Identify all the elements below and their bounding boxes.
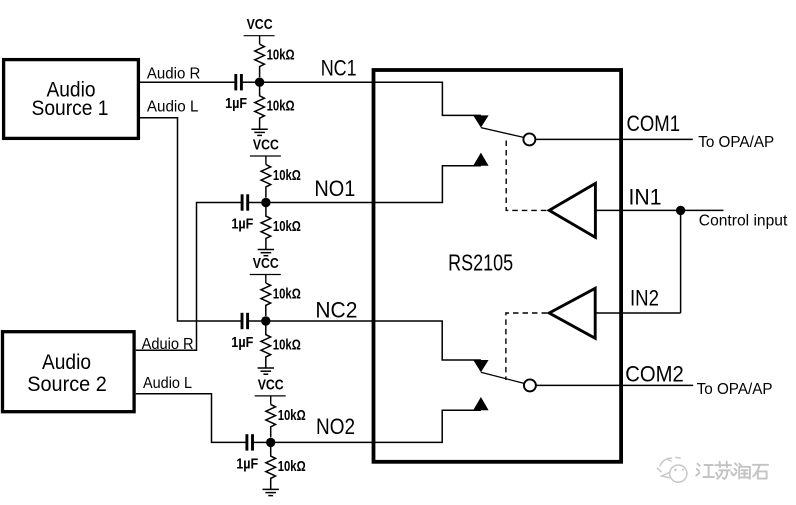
svg-text:Control input: Control input	[699, 213, 788, 230]
node junction dot net 2	[261, 198, 270, 207]
resistor R7 10k pull-up	[266, 404, 306, 437]
watermark text Jiangsu Runshi (drawn strokes)	[696, 462, 768, 479]
wire COM2 output	[536, 384, 693, 386]
svg-text:Audio R: Audio R	[147, 66, 201, 83]
switch SW1 common pole circle	[523, 133, 535, 145]
svg-text:VCC: VCC	[253, 138, 279, 154]
ground GND1	[251, 129, 267, 135]
wire Audio R source1 to C1	[140, 81, 235, 83]
svg-text:Audio L: Audio L	[143, 375, 192, 392]
svg-text:VCC: VCC	[253, 256, 279, 272]
wire NC1 net into U1	[260, 82, 481, 115]
wire Aduio R source2 to C2 (NO1)	[136, 203, 242, 351]
wire control input to IN2	[680, 210, 682, 313]
resistor R5 10k pull-up	[261, 283, 301, 316]
svg-text:10kΩ: 10kΩ	[267, 48, 295, 64]
wire IN2	[595, 312, 680, 314]
svg-text:10kΩ: 10kΩ	[273, 219, 301, 235]
resistor R3 10k pull-up	[261, 165, 301, 198]
svg-text:Audio: Audio	[42, 351, 91, 374]
wire IN1	[595, 209, 723, 211]
svg-text:IN1: IN1	[629, 185, 662, 210]
node junction dot net 3	[261, 316, 270, 325]
wire Audio L source2 to C4 (NO2)	[136, 394, 246, 443]
resistor R4 10k pull-down	[261, 207, 301, 250]
watermark logo	[657, 458, 687, 483]
svg-text:To OPA/AP: To OPA/AP	[697, 381, 773, 398]
switch SW2 common pole circle	[524, 379, 536, 391]
capacitor C3 1uF coupling	[231, 313, 261, 351]
switch SW1 NO contact (up triangle)	[473, 153, 488, 166]
ground GND3	[258, 368, 274, 374]
inverter buffer A2	[549, 288, 595, 338]
svg-text:NC2: NC2	[315, 298, 357, 323]
wire NC2 net into U1	[266, 321, 481, 360]
svg-text:NO2: NO2	[316, 414, 355, 439]
dashed control link SW1	[506, 141, 547, 211]
svg-text:To OPA/AP: To OPA/AP	[698, 134, 774, 151]
svg-text:10kΩ: 10kΩ	[273, 287, 301, 303]
capacitor C4 1uF coupling	[236, 434, 267, 472]
dashed control link SW2	[506, 313, 547, 380]
VCC3 VCC supply symbol	[250, 256, 281, 283]
capacitor C2 1uF coupling	[231, 194, 262, 232]
svg-text:10kΩ: 10kΩ	[278, 408, 306, 424]
wire Audio L source1 to C3 (NC2)	[140, 118, 241, 321]
Audio Source 1 box	[4, 60, 139, 139]
svg-text:1µF: 1µF	[231, 217, 253, 233]
resistor R8 10k pull-down	[266, 446, 306, 489]
svg-text:NO1: NO1	[314, 176, 355, 201]
switch SW2 NO contact (up triangle)	[473, 397, 488, 410]
resistor R2 10k pull-down	[255, 86, 295, 129]
svg-text:10kΩ: 10kΩ	[278, 459, 306, 475]
node junction dot net 1	[255, 78, 264, 87]
Audio Source 2 box	[3, 332, 135, 412]
svg-text:Audio L: Audio L	[147, 98, 199, 115]
ground GND2	[258, 250, 274, 256]
svg-text:NC1: NC1	[321, 56, 357, 81]
switch SW2 NC contact (down triangle)	[473, 360, 488, 372]
svg-text:Aduio R: Aduio R	[142, 336, 194, 353]
op-amp U1 RS2105 IC body	[374, 70, 622, 462]
wire NO2 net into U1	[271, 410, 481, 442]
wire COM1 output	[535, 138, 692, 140]
svg-text:10kΩ: 10kΩ	[273, 338, 301, 354]
svg-text:VCC: VCC	[247, 17, 273, 33]
svg-text:Source 1: Source 1	[32, 97, 109, 120]
node control input junction	[676, 206, 685, 215]
svg-text:1µF: 1µF	[236, 456, 258, 472]
svg-text:1µF: 1µF	[231, 335, 253, 351]
VCC1 VCC supply symbol	[244, 17, 275, 44]
switch SW1 lever	[481, 128, 524, 138]
VCC4 VCC supply symbol	[255, 377, 286, 404]
ground GND4	[263, 489, 279, 495]
svg-text:RS2105: RS2105	[448, 250, 513, 276]
resistor R1 10k pull-up	[255, 44, 295, 77]
VCC2 VCC supply symbol	[250, 138, 281, 165]
switch SW2 lever	[481, 372, 524, 383]
svg-text:VCC: VCC	[258, 377, 284, 393]
svg-text:Source 2: Source 2	[27, 373, 107, 396]
switch SW1 NC contact (down triangle)	[473, 115, 488, 127]
inverter buffer A1	[549, 183, 595, 237]
svg-text:COM2: COM2	[625, 361, 684, 386]
node junction dot net 4	[266, 438, 275, 447]
svg-text:1µF: 1µF	[225, 96, 247, 112]
Audio Source 1 label	[32, 79, 109, 121]
svg-text:10kΩ: 10kΩ	[267, 99, 295, 115]
Audio Source 2 label	[27, 351, 107, 396]
wire NO1 net into U1	[266, 166, 481, 203]
resistor R6 10k pull-down	[261, 325, 301, 368]
svg-text:10kΩ: 10kΩ	[273, 168, 301, 184]
svg-text:COM1: COM1	[627, 111, 681, 136]
svg-text:IN2: IN2	[630, 285, 659, 310]
capacitor C1 1uF coupling	[225, 74, 256, 112]
